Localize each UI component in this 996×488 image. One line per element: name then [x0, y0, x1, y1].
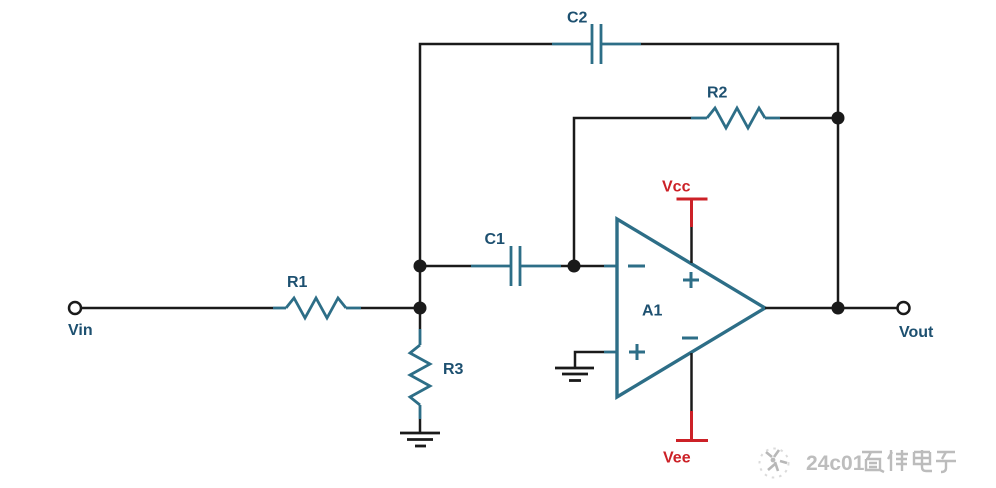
op-amp minus input symbol	[628, 265, 645, 268]
svg-text:Vin: Vin	[68, 322, 93, 339]
watermark text CJK strokes	[862, 450, 956, 472]
watermark logo icon	[760, 449, 789, 478]
op-amp plus input symbol	[629, 344, 645, 360]
wire node C up to R2	[574, 118, 691, 266]
wire R3 bottom stub	[419, 308, 422, 329]
resistor R3	[410, 329, 430, 419]
terminal Vin	[69, 302, 81, 314]
capacitor C2	[552, 24, 641, 64]
svg-text:R3: R3	[443, 361, 464, 378]
node output junction dot	[832, 302, 845, 315]
resistor R1	[273, 298, 361, 318]
wire C2 to right corner down to R2 node	[641, 44, 838, 118]
svg-text:C1: C1	[485, 231, 506, 248]
power Vcc	[677, 199, 708, 227]
svg-text:24c01: 24c01	[806, 452, 865, 475]
svg-text:Vee: Vee	[663, 450, 691, 467]
node C junction dot	[568, 260, 581, 273]
wire R2 to output node	[780, 117, 838, 120]
resistor R2	[691, 108, 780, 128]
wire node A to C1	[426, 265, 471, 268]
svg-text:C2: C2	[567, 10, 588, 27]
wire C1 to node C	[561, 265, 574, 268]
svg-text:Vcc: Vcc	[662, 179, 691, 196]
node A junction dot	[414, 260, 427, 273]
svg-text:R2: R2	[707, 85, 728, 102]
op-amp internal minus power symbol	[682, 337, 698, 340]
wire node B to node A	[419, 266, 422, 308]
wire op-amp to Vee	[690, 353, 693, 411]
wire plus input to ground	[604, 351, 617, 354]
terminal Vout	[898, 302, 910, 314]
node R2 output junction dot	[832, 112, 845, 125]
wire right vertical to output	[837, 118, 840, 308]
wire op-amp output to Vout	[765, 307, 897, 310]
op-amp A1	[617, 219, 765, 397]
wire Vin to R1	[81, 307, 273, 310]
svg-text:R1: R1	[287, 274, 308, 291]
wire node C to op-amp minus input	[574, 265, 604, 268]
ground at plus input	[555, 368, 594, 381]
op-amp internal plus power symbol	[683, 272, 699, 288]
ground under R3	[400, 433, 440, 446]
node B junction dot	[414, 302, 427, 315]
capacitor C1	[471, 246, 561, 286]
power Vee	[676, 411, 708, 441]
svg-text:A1: A1	[642, 303, 663, 320]
svg-text:Vout: Vout	[899, 324, 934, 341]
wire R1 to node B	[361, 307, 420, 310]
wire node A up and to C2	[420, 44, 552, 266]
wire Vcc to op-amp	[690, 227, 693, 263]
